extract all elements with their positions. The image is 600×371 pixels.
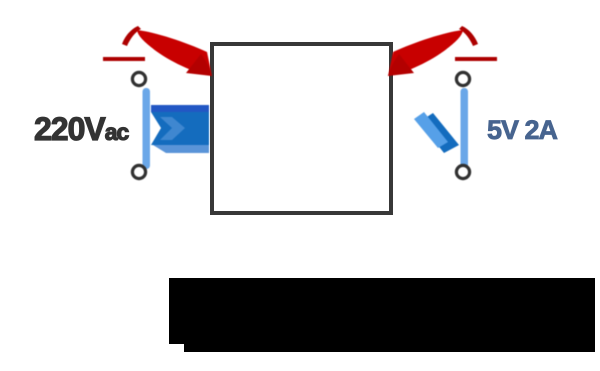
mount dot top-left — [132, 72, 145, 85]
blue vertical bar right — [461, 88, 469, 169]
black caption bar bottom-left notch — [169, 344, 184, 352]
mount dot top-right — [456, 72, 469, 85]
red input arrow left — [103, 26, 212, 76]
blue vertical bar left — [143, 88, 151, 169]
label 220Vac — [34, 113, 136, 145]
black caption bar — [169, 278, 595, 352]
label 5V 2.1A — [487, 117, 565, 144]
converter box U1 — [210, 42, 393, 215]
red output arrow right (mirror) — [388, 26, 497, 76]
blue input arrow left — [151, 105, 209, 153]
blue output arrow right — [414, 112, 459, 153]
mount dot bottom-right — [456, 165, 469, 178]
mount dot bottom-left — [132, 165, 145, 178]
